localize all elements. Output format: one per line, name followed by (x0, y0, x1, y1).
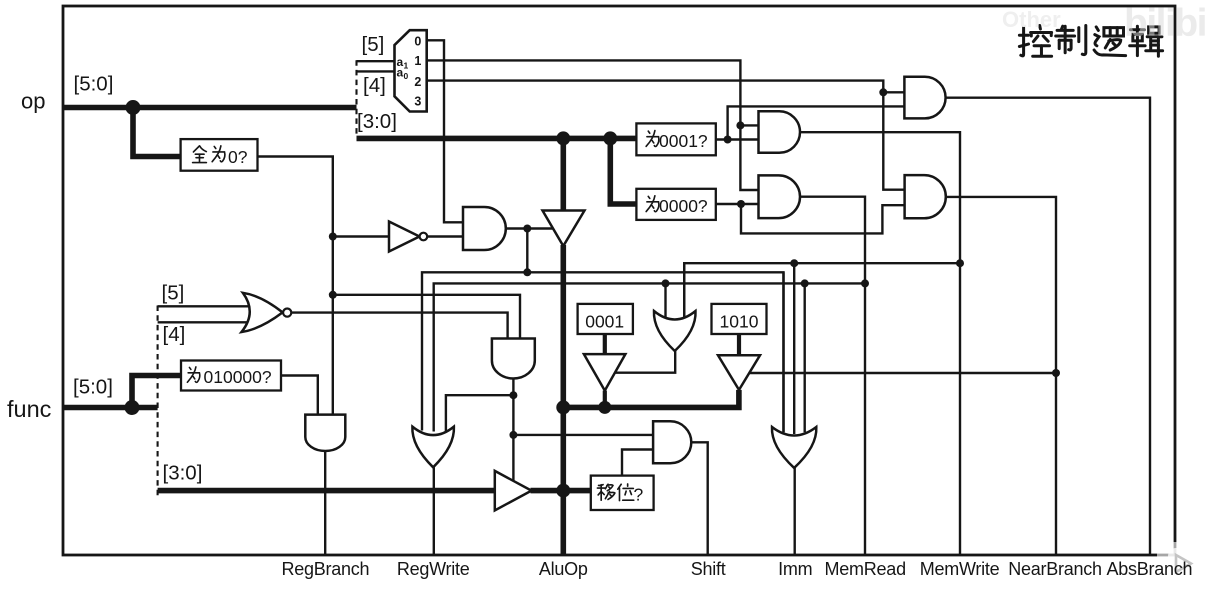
svg-text:0000?: 0000? (659, 196, 708, 216)
svg-text:1010: 1010 (720, 312, 759, 332)
wire 0001 to buffer (603, 334, 607, 355)
junction U4 out (523, 225, 531, 233)
wire branch to 0000 box (610, 138, 636, 204)
svg-text:3: 3 (414, 95, 421, 109)
decoder U1 body (395, 30, 427, 111)
wire op bus (63, 105, 357, 111)
box shift query (移位?) (591, 476, 654, 510)
wire U4 out branch down (526, 229, 528, 273)
wire decoder out2 (427, 81, 905, 190)
svg-text:[4]: [4] (363, 74, 386, 97)
wire Imm right input (804, 283, 806, 432)
bit split op (dashed) (355, 60, 357, 137)
wire AND3 out to NearBranch (946, 197, 1056, 555)
box all-zero (全为0?) (181, 139, 258, 171)
svg-text:1: 1 (404, 61, 409, 71)
junction AND1-signal to Imm (790, 259, 798, 267)
wire op branch to all-zero box (133, 108, 181, 157)
wire AND1 out to MemWrite (800, 132, 960, 555)
and gate U_AND1 (759, 111, 800, 153)
svg-text:0: 0 (414, 35, 421, 49)
bus func[3:0] (158, 488, 496, 494)
wire all-zero to U3 input (333, 235, 389, 237)
junction AND2-signal to OR-mid (662, 279, 670, 287)
junction op[3:0] to AluOp buffer (556, 131, 570, 145)
box const 0001 (578, 304, 633, 334)
svg-text:[5]: [5] (162, 281, 185, 304)
junction is-0000 out (737, 200, 745, 208)
wire is-010000 out (281, 376, 318, 417)
junction AluOp shift (556, 484, 570, 498)
bus AluOp to buffers (563, 390, 739, 408)
svg-text:Imm: Imm (778, 559, 812, 579)
svg-text:0: 0 (404, 71, 409, 81)
and gate U_AND0 (904, 77, 945, 119)
and gate U4 (463, 207, 506, 250)
junction all-zero to NOT (329, 233, 337, 241)
svg-text:010000?: 010000? (204, 367, 272, 387)
wire decoder out1 (427, 60, 759, 190)
box is-0001 label (646, 131, 708, 151)
svg-text:?: ? (634, 485, 644, 505)
wire U8 out to AluOp bus (603, 391, 607, 408)
box is-010000 label (187, 367, 272, 387)
junction MemWrite tap (956, 259, 964, 267)
wire a0 input (357, 70, 395, 72)
junction func split (125, 400, 140, 415)
svg-text:func: func (7, 396, 52, 422)
svg-text:AbsBranch: AbsBranch (1106, 559, 1192, 579)
wire shift-box top to AND (622, 450, 653, 476)
svg-text:op: op (21, 89, 45, 114)
watermark tv logo bottom right (1157, 542, 1205, 581)
svg-text:bilibili: bilibili (1124, 2, 1205, 45)
svg-text:[3:0]: [3:0] (357, 110, 397, 133)
wire Imm center input (793, 263, 795, 434)
buffer U8 (0001) (584, 354, 626, 391)
and gate RegBranch (305, 415, 345, 451)
junction U4 branch to H-line (523, 268, 531, 276)
wire 1010 to buffer (737, 334, 741, 356)
wire U11 out to 0001-buffer enable (615, 350, 676, 373)
wire 1010-buffer enable (749, 372, 1056, 374)
svg-text:[5:0]: [5:0] (73, 375, 113, 398)
svg-text:1: 1 (414, 54, 421, 68)
svg-text:0001: 0001 (585, 312, 624, 332)
svg-text:0?: 0? (228, 147, 248, 167)
svg-text:Other: Other (1002, 7, 1061, 32)
and gate shift (653, 421, 691, 463)
svg-text:a: a (397, 66, 404, 80)
wire func bus (63, 405, 158, 411)
junction is-0001 out (724, 136, 732, 144)
junction AND2-signal to Imm (801, 279, 809, 287)
wire out1 stub to AND1 (740, 124, 758, 126)
inverter U3 (389, 222, 420, 252)
svg-text:[5]: [5] (362, 33, 385, 56)
svg-text:0001?: 0001? (659, 131, 708, 151)
wire U4 out (506, 227, 555, 229)
wire func4 to NOR (158, 321, 249, 323)
box is-010000 (为010000?) (181, 361, 281, 391)
junction MemRead tap (861, 279, 869, 287)
wire shift out (691, 442, 707, 555)
junction U5 to RegWrite-OR (509, 391, 517, 399)
junction out1 to U_AND1 (736, 121, 744, 129)
svg-text:MemRead: MemRead (825, 559, 906, 579)
svg-text:2: 2 (414, 75, 421, 89)
wire U3 out to U4 (427, 235, 463, 237)
buffer U6 (543, 211, 585, 247)
or gate U11 body (654, 311, 696, 351)
wire U5 branch to shift-AND (513, 434, 653, 436)
nor gate U2 bubble (283, 309, 291, 317)
wire U11 right input (683, 263, 685, 317)
wire U5 branch to RegWrite-OR (446, 395, 514, 432)
svg-text:MemWrite: MemWrite (920, 559, 1000, 579)
wire Imm out (794, 468, 796, 555)
wire out2 stub to AND0 (883, 91, 904, 93)
box is-0000 label (646, 196, 708, 216)
svg-text:RegWrite: RegWrite (397, 559, 470, 579)
wire is-0001 up to AND0 (728, 106, 905, 139)
wire RegBranch out (324, 451, 326, 555)
svg-text:[4]: [4] (163, 323, 186, 346)
wire Imm left input (782, 272, 784, 432)
junction out2 to AND0 (879, 88, 887, 96)
junction all-zero to U5 (329, 291, 337, 299)
svg-text:NearBranch: NearBranch (1008, 559, 1102, 579)
box is-0000 (为0000?) (636, 189, 715, 220)
junction NearBranch tap (1052, 369, 1060, 377)
bus AluOp vertical (560, 245, 566, 555)
or gate Imm (772, 427, 816, 468)
wire AND0 out to AbsBranch (946, 98, 1150, 555)
wire op[3:0] into U6 (560, 138, 566, 211)
title 控制逻辑 (1019, 26, 1162, 57)
wire func5 to NOR (158, 305, 250, 307)
svg-text:[3:0]: [3:0] (163, 461, 203, 484)
wire all-zero out (258, 157, 333, 417)
svg-text:AluOp: AluOp (539, 559, 588, 579)
and gate U_AND2 (759, 175, 801, 218)
bit split func (dashed) (157, 306, 159, 498)
nor gate U2 body (242, 293, 283, 332)
junction op split (126, 100, 141, 115)
wire is-0001 out (716, 138, 759, 140)
wire is-0000 to AND3 (741, 204, 905, 233)
wire NOR out to U5 (291, 313, 507, 341)
svg-text:Shift: Shift (691, 559, 726, 579)
wire a1 input (357, 60, 395, 62)
watermark bilibili top right (1124, 2, 1205, 45)
svg-text:[5:0]: [5:0] (74, 73, 114, 96)
wire all-zero to U5 branch (333, 295, 520, 341)
wire AND1-signal distribution (684, 263, 960, 317)
or gate RegWrite (412, 427, 454, 468)
wire OR-mid left input (664, 283, 666, 317)
wire func branch to 010000 box (132, 376, 181, 408)
wire U4-signal distribution (422, 272, 784, 432)
wire AND2 out to MemRead (800, 197, 865, 555)
buffer U13 (1010) (718, 355, 760, 390)
box const 1010 (712, 304, 767, 334)
wire U5 out (512, 379, 514, 482)
wire U14 out thick (531, 488, 591, 494)
and gate U5 (492, 339, 535, 379)
wire is-0000 out (716, 203, 759, 205)
bus op[3:0] (357, 136, 637, 142)
buffer U14 (func passthrough) (495, 471, 532, 511)
and gate U_AND3 (905, 175, 946, 218)
junction U5 to shift-AND (509, 431, 517, 439)
box shift query label (597, 484, 643, 505)
wire decoder out0 to U4 (427, 40, 463, 222)
svg-text:RegBranch: RegBranch (281, 559, 369, 579)
box is-0001 (为0001?) (636, 123, 715, 155)
junction U8 on AluOp bus (598, 401, 611, 414)
junction AluOp bus split (556, 400, 570, 414)
box all-zero label (193, 146, 248, 167)
wire RegWrite out (433, 468, 435, 556)
wire AND2-signal distribution (434, 283, 865, 431)
junction op[3:0] to 0000 box (603, 131, 617, 145)
